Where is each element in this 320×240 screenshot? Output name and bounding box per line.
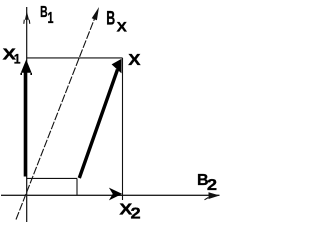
axis B1 (vertical) [26,7,28,222]
svg-text:B: B [40,4,48,21]
svg-text:2: 2 [207,177,217,194]
svg-text:X: X [117,19,128,35]
projection line X to X2 (right vertical) [122,58,124,200]
projection line X1 to X (top horizontal) [27,57,123,59]
component vector along B2 (big arrowhead on axis at X2) [109,188,122,201]
component vector along B1 (thick vertical arrow) [24,70,27,177]
axis B2 arrowhead [209,192,220,199]
svg-text:2: 2 [131,206,141,223]
svg-text:B: B [106,9,115,30]
svg-text:1: 1 [14,50,21,66]
axis Bx arrowhead [92,7,99,20]
svg-text:1: 1 [48,10,54,27]
helper line vertical from base point to B2 axis [76,178,78,195]
helper line horizontal at parallelogram base [27,177,77,179]
axis B2 (horizontal) [1,194,220,196]
axis B1 arrowhead [25,11,29,20]
svg-text:X: X [128,52,141,69]
axis Bx (oblique dashed) [16,11,98,220]
component vector along Bx (thick oblique arrow) [79,70,117,179]
